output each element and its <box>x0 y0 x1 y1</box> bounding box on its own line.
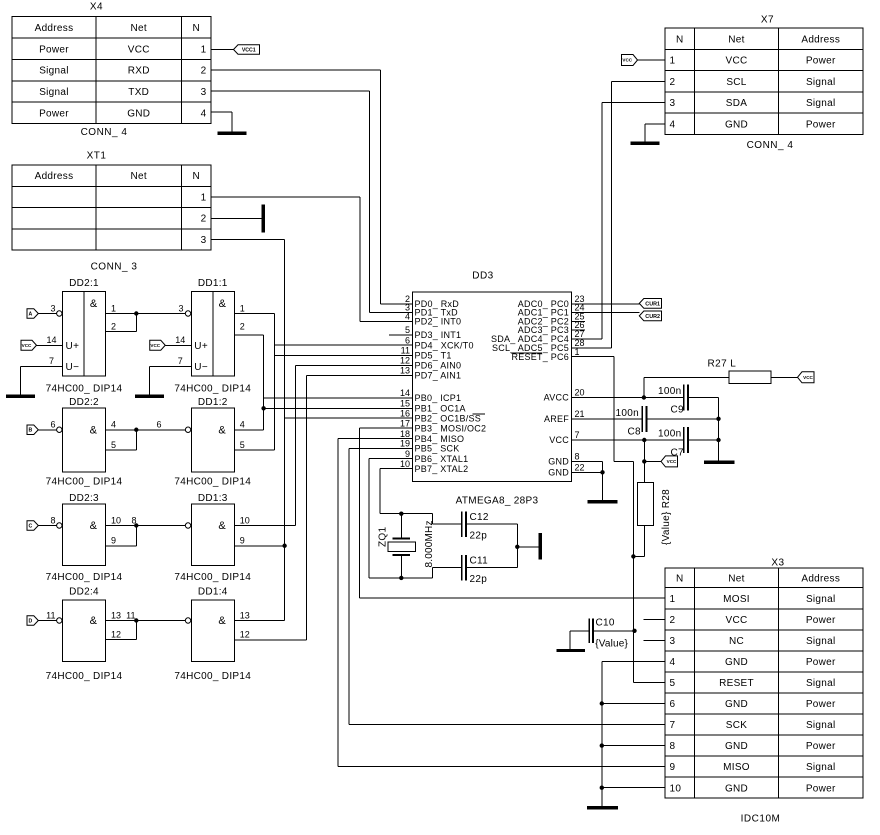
svg-text:Address: Address <box>801 573 840 584</box>
svg-text:6: 6 <box>670 699 676 710</box>
svg-text:CONN_ 3: CONN_ 3 <box>91 262 138 273</box>
svg-text:&: & <box>90 298 98 310</box>
ground symbol at X7 pin4 <box>631 142 660 145</box>
wire XT1 pin3 net (long vertical to gates DD1:3/DD1:4 and DD3 PB2) <box>211 238 285 240</box>
wire X7 pin2 SCL to DD3 pin28 <box>612 80 666 82</box>
svg-text:VCC: VCC <box>622 58 632 63</box>
svg-text:Net: Net <box>131 23 147 34</box>
wire jog bottom rail to C11 row <box>432 568 434 578</box>
wire input B to DD2:2 <box>38 429 56 431</box>
svg-text:3: 3 <box>201 87 207 98</box>
ground symbol at X4 pin 4 <box>218 132 247 135</box>
svg-text:N: N <box>676 34 684 45</box>
svg-text:14: 14 <box>400 388 410 398</box>
svg-text:VCC: VCC <box>22 343 32 348</box>
svg-text:A: A <box>29 311 33 317</box>
svg-text:GND: GND <box>548 457 569 467</box>
svg-text:11: 11 <box>401 346 410 356</box>
NAND gate DD2:3 74HC00 <box>63 504 106 566</box>
junction dot crystal top <box>399 512 403 516</box>
capacitor C7 100n <box>684 427 688 453</box>
svg-text:4: 4 <box>670 119 676 130</box>
svg-text:2: 2 <box>670 77 676 88</box>
power flag VCC at R27 <box>798 372 815 383</box>
svg-text:17: 17 <box>400 418 410 428</box>
wire DD2:2 output pins tied <box>106 429 137 431</box>
svg-text:CONN_ 4: CONN_ 4 <box>747 140 794 151</box>
svg-text:RXD: RXD <box>128 66 150 77</box>
svg-text:Signal: Signal <box>806 636 836 647</box>
svg-text:VCC: VCC <box>725 56 747 67</box>
svg-text:Power: Power <box>806 741 836 752</box>
svg-text:Power: Power <box>806 657 836 668</box>
svg-text:Signal: Signal <box>806 594 836 605</box>
wire DD2:3 output pins tied <box>106 525 137 527</box>
svg-text:GND: GND <box>725 699 748 710</box>
input port flag D <box>27 616 38 626</box>
overline on SS of pin 16 <box>473 413 486 415</box>
svg-text:10: 10 <box>670 783 682 794</box>
wire DD1:4 pin13 to XT1-pin3 net <box>234 620 284 622</box>
svg-text:13: 13 <box>111 610 121 620</box>
svg-text:19: 19 <box>400 439 410 449</box>
svg-text:CONN_ 4: CONN_ 4 <box>81 127 128 138</box>
svg-text:3: 3 <box>178 303 183 313</box>
wire to crystal ground terminal <box>517 546 538 548</box>
svg-text:MISO: MISO <box>723 762 750 773</box>
wire C7 right <box>688 439 719 441</box>
svg-text:SCK: SCK <box>726 720 747 731</box>
svg-text:MOSI: MOSI <box>723 594 750 605</box>
svg-text:12: 12 <box>111 629 121 639</box>
svg-text:8: 8 <box>131 515 136 525</box>
svg-text:&: & <box>218 424 226 436</box>
svg-text:{Value} R28: {Value} R28 <box>661 489 672 545</box>
svg-text:PD3_ INT1: PD3_ INT1 <box>415 330 462 340</box>
capacitor C11 22p <box>462 555 466 581</box>
wire DD1:4 pin12 to DD3 PD7_AIN1 <box>234 639 306 641</box>
svg-text:PB6_ XTAL1: PB6_ XTAL1 <box>415 454 469 464</box>
junction dot PB1 net <box>261 406 265 410</box>
junction dot crystal bottom <box>399 576 403 580</box>
wire input C to DD2:3 <box>38 525 56 527</box>
wire DD3 RESET pin1 to X3 pin5 <box>571 356 614 358</box>
svg-text:PB7_ XTAL2: PB7_ XTAL2 <box>415 464 469 474</box>
svg-text:16: 16 <box>400 408 410 418</box>
wire X4 pin3 TXD net to DD3 PD1_TxD <box>211 90 370 92</box>
capacitor C9 100n <box>684 385 688 411</box>
junction dot C10/RESET <box>632 629 636 633</box>
svg-text:NC: NC <box>729 636 744 647</box>
svg-text:ATMEGA8_ 28P3: ATMEGA8_ 28P3 <box>456 496 539 507</box>
svg-text:&: & <box>218 615 226 627</box>
svg-text:Address: Address <box>801 34 840 45</box>
junction dot AVCC/R27 <box>642 395 646 399</box>
wire X4 pin4 GND <box>211 111 232 113</box>
svg-text:DD2:1: DD2:1 <box>69 278 99 289</box>
wire R28 bottom to RESET net <box>643 525 645 556</box>
svg-text:Signal: Signal <box>39 66 69 77</box>
svg-text:2: 2 <box>111 321 116 331</box>
wire DD3 pin23 to CUR1 <box>571 303 639 305</box>
ground terminal bar (vertical) <box>538 533 542 560</box>
junction dot DD2:2 output <box>134 428 138 432</box>
capacitor C12 22p <box>462 511 466 537</box>
svg-text:Power: Power <box>806 699 836 710</box>
X3 pin3 stub NC <box>644 639 665 641</box>
wire X7 pin3 SDA to DD3 pin27 <box>602 102 665 104</box>
svg-text:100n: 100n <box>658 386 681 397</box>
svg-text:74HC00_ DIP14: 74HC00_ DIP14 <box>174 671 251 682</box>
junction dot AREF rail <box>716 417 720 421</box>
svg-text:7: 7 <box>49 356 54 366</box>
wire DD3 AREF pin21 row <box>571 418 642 420</box>
svg-text:6: 6 <box>50 420 55 430</box>
svg-text:7: 7 <box>670 720 676 731</box>
svg-text:1: 1 <box>670 56 676 67</box>
DD3 pin 5 stub (unconnected) <box>389 334 413 336</box>
svg-text:7: 7 <box>178 356 183 366</box>
svg-text:5: 5 <box>670 678 676 689</box>
junction dot R28/RESET <box>631 554 635 558</box>
wire VCC flag junction down to R28 <box>643 461 645 482</box>
wire DD3 PB6_XTAL1 pin9 to crystal bottom rail <box>369 458 412 460</box>
svg-text:GND: GND <box>127 109 150 120</box>
wire DD3 PB7_XTAL2 pin10 to crystal top rail <box>380 468 413 470</box>
X3 pin2 stub VCC <box>644 618 665 620</box>
junction dot VCC rail <box>716 438 720 442</box>
svg-text:C12: C12 <box>470 512 489 523</box>
wire DD1:1 pin1 to DD3 PD4_XCK/T0 and DD1:2 pin5 to PD5_T1 (shared column) <box>234 313 274 315</box>
wire C11 right <box>466 567 517 569</box>
svg-text:N: N <box>676 573 684 584</box>
svg-text:4: 4 <box>240 420 245 430</box>
svg-text:Net: Net <box>728 573 744 584</box>
svg-text:DD1:1: DD1:1 <box>198 278 228 289</box>
svg-text:3: 3 <box>670 98 676 109</box>
svg-text:R27 L: R27 L <box>708 359 737 370</box>
svg-text:2: 2 <box>201 214 207 225</box>
svg-text:Signal: Signal <box>806 762 836 773</box>
ground symbol at C10 <box>556 649 585 652</box>
svg-text:RESET: RESET <box>719 678 754 689</box>
wire R27 left to AVCC junction <box>644 376 729 378</box>
svg-text:DD2:2: DD2:2 <box>69 397 99 408</box>
wire DD2:4 to DD1:4 input <box>136 620 185 622</box>
svg-text:Power: Power <box>39 109 69 120</box>
wire DD3 AVCC pin20 row <box>571 397 683 399</box>
svg-text:&: & <box>90 424 98 436</box>
svg-text:5: 5 <box>240 440 245 450</box>
svg-text:11: 11 <box>126 610 135 620</box>
NAND gate DD1:3 74HC00 <box>191 504 234 566</box>
input port flag C <box>27 521 38 531</box>
svg-text:D: D <box>29 618 33 624</box>
svg-text:PB4_ MISO: PB4_ MISO <box>415 434 465 444</box>
svg-text:C11: C11 <box>470 555 489 566</box>
wire GND down <box>602 472 604 500</box>
wire VCC to DD1:1 U+ pin 14 <box>165 344 191 346</box>
junction dot DD2:3 output <box>134 523 138 527</box>
DD3 pins 25,26 stubs (unconnected) <box>571 320 585 322</box>
svg-text:Signal: Signal <box>806 678 836 689</box>
svg-text:Signal: Signal <box>39 87 69 98</box>
svg-text:Power: Power <box>806 56 836 67</box>
NAND gate DD2:1 74HC00 <box>63 292 106 377</box>
wire X7 pin1 VCC <box>638 59 666 61</box>
svg-text:7: 7 <box>575 430 580 440</box>
overline on RESET of pin 1 <box>511 352 542 354</box>
junction dot VCC pin7 column <box>642 438 646 442</box>
NAND gate DD1:2 74HC00 <box>191 408 234 472</box>
wire C9 right to ground rail <box>688 397 719 399</box>
input port flag B <box>27 425 38 435</box>
svg-text:74HC00_ DIP14: 74HC00_ DIP14 <box>46 572 123 583</box>
svg-text:Power: Power <box>806 615 836 626</box>
svg-text:74HC00_ DIP14: 74HC00_ DIP14 <box>46 477 123 488</box>
svg-text:B: B <box>29 428 33 434</box>
NAND gate DD2:4 74HC00 <box>63 600 106 662</box>
svg-text:Power: Power <box>806 119 836 130</box>
wire VCC column down to flag junction <box>643 440 645 461</box>
svg-text:12: 12 <box>240 629 250 639</box>
svg-text:Address: Address <box>35 23 74 34</box>
svg-text:SCL: SCL <box>726 77 746 88</box>
svg-text:&: & <box>219 298 227 310</box>
svg-text:1: 1 <box>240 303 245 313</box>
wire DD2:4 output pins tied <box>106 620 137 622</box>
ground symbol decoupling rail <box>704 461 735 464</box>
connector X4 pin 1 wire to VCC1 flag <box>211 49 234 51</box>
svg-text:X4: X4 <box>90 2 103 13</box>
svg-text:Address: Address <box>35 171 74 182</box>
svg-text:CUR2: CUR2 <box>645 314 660 320</box>
wire X3 pin10 GND <box>602 787 665 789</box>
svg-text:XT1: XT1 <box>87 151 107 162</box>
svg-text:6: 6 <box>405 335 410 345</box>
wire DD3 VCC pin7 row <box>571 439 683 441</box>
ground symbol at DD1:1 pin 7 <box>135 395 164 398</box>
svg-text:8.000MHz: 8.000MHz <box>424 520 435 567</box>
svg-text:18: 18 <box>400 429 410 439</box>
svg-text:&: & <box>90 520 98 532</box>
svg-text:CUR1: CUR1 <box>645 301 660 307</box>
svg-text:100n: 100n <box>616 408 639 419</box>
svg-text:2: 2 <box>240 321 245 331</box>
wire DD3 pin24 to CUR2 <box>571 312 639 314</box>
svg-text:14: 14 <box>46 335 56 345</box>
svg-text:4: 4 <box>201 109 207 120</box>
svg-text:PB0_ ICP1: PB0_ ICP1 <box>415 393 462 403</box>
svg-text:12: 12 <box>400 356 410 366</box>
svg-text:4: 4 <box>670 657 676 668</box>
svg-text:9: 9 <box>670 762 676 773</box>
svg-text:5: 5 <box>405 325 410 335</box>
svg-text:PD5_ T1: PD5_ T1 <box>415 351 452 361</box>
svg-text:DD2:4: DD2:4 <box>69 586 99 597</box>
svg-text:X7: X7 <box>761 15 774 26</box>
NAND gate DD2:2 74HC00 <box>63 408 106 472</box>
connector XT1 table <box>12 165 211 250</box>
svg-text:4: 4 <box>111 420 116 430</box>
svg-text:GND: GND <box>725 119 748 130</box>
svg-text:N: N <box>192 23 200 34</box>
wire C12 right <box>466 523 517 525</box>
wire jog top rail to C12 row <box>432 514 434 524</box>
svg-text:100n: 100n <box>658 429 681 440</box>
power flag VCC1 <box>234 45 260 55</box>
svg-text:8: 8 <box>575 452 580 462</box>
svg-text:5: 5 <box>111 440 116 450</box>
connector X7 table <box>665 28 863 135</box>
svg-text:DD3: DD3 <box>472 271 494 282</box>
wire X3 pin4 GND net <box>602 660 665 662</box>
junction dot DD2:1 output <box>134 311 138 315</box>
svg-text:15: 15 <box>400 399 410 409</box>
wire DD2:1 to DD1:1 input <box>136 313 185 315</box>
svg-text:U+: U+ <box>194 341 208 352</box>
svg-text:GND: GND <box>725 783 748 794</box>
svg-text:13: 13 <box>400 366 410 376</box>
svg-text:1: 1 <box>670 594 676 605</box>
svg-text:Signal: Signal <box>806 77 836 88</box>
wire DD2:1 U- pin 7 to ground <box>21 366 63 368</box>
svg-text:74HC00_ DIP14: 74HC00_ DIP14 <box>174 384 251 395</box>
svg-text:X3: X3 <box>771 558 784 569</box>
wire C10 right to RESET net <box>593 630 635 632</box>
svg-text:Signal: Signal <box>806 720 836 731</box>
svg-text:22p: 22p <box>470 531 488 542</box>
svg-text:3: 3 <box>670 636 676 647</box>
svg-text:22: 22 <box>575 463 585 473</box>
wire to VCC flag <box>644 460 661 462</box>
junction dot caps right <box>515 545 519 549</box>
svg-text:U+: U+ <box>66 341 80 352</box>
svg-text:VCC1: VCC1 <box>242 47 256 53</box>
svg-text:1: 1 <box>201 192 207 203</box>
svg-text:74HC00_ DIP14: 74HC00_ DIP14 <box>46 384 123 395</box>
power flag VCC near C7 <box>661 456 678 467</box>
svg-text:Signal: Signal <box>806 98 836 109</box>
svg-text:8: 8 <box>670 741 676 752</box>
port flag CUR1 <box>639 299 661 309</box>
wire branch PB2_OC1B/SS pin16 <box>285 417 413 419</box>
svg-text:9: 9 <box>111 536 116 546</box>
power flag VCC at DD2:1 pin 14 <box>21 340 37 350</box>
svg-text:Power: Power <box>806 783 836 794</box>
svg-text:N: N <box>192 171 200 182</box>
wire R27 right to VCC flag <box>771 376 798 378</box>
connector X3 table <box>665 568 863 798</box>
svg-text:74HC00_ DIP14: 74HC00_ DIP14 <box>46 671 123 682</box>
svg-text:VCC: VCC <box>128 44 150 55</box>
wire X3 pin6 GND <box>602 703 665 705</box>
ground symbol at DD3 GND <box>588 500 618 503</box>
svg-text:14: 14 <box>175 335 185 345</box>
svg-text:Net: Net <box>131 171 147 182</box>
power flag VCC at X7 pin1 <box>622 55 638 66</box>
svg-text:VCC: VCC <box>725 615 747 626</box>
power flag VCC at DD1:1 pin 14 <box>150 340 166 350</box>
svg-text:&: & <box>218 520 226 532</box>
svg-text:AVCC: AVCC <box>544 393 570 403</box>
svg-text:PB2_ OC1B/SS: PB2_ OC1B/SS <box>415 413 482 423</box>
svg-text:3: 3 <box>50 303 55 313</box>
svg-text:74HC00_ DIP14: 74HC00_ DIP14 <box>174 572 251 583</box>
svg-text:IDC10M: IDC10M <box>741 814 781 825</box>
resistor R27 body <box>729 371 771 384</box>
wire XT1 pin2 to bar terminal <box>211 217 262 219</box>
wire DD1:3 pin9 to XT1-pin3 net <box>234 545 284 547</box>
wire DD2:2 to DD1:2 input <box>136 429 185 431</box>
svg-text:10: 10 <box>400 459 410 469</box>
wire C8 right <box>647 418 719 420</box>
svg-text:ZQ1: ZQ1 <box>378 527 389 547</box>
svg-text:2: 2 <box>670 615 676 626</box>
input port flag A <box>27 309 38 319</box>
svg-text:22p: 22p <box>470 574 488 585</box>
wire DD2:1 output pins tied <box>106 313 137 315</box>
wire DD3 PB5 SCK to X3 pin7 <box>349 448 413 450</box>
svg-text:GND: GND <box>725 657 748 668</box>
svg-text:1: 1 <box>201 44 207 55</box>
svg-text:10: 10 <box>240 515 250 525</box>
svg-text:TXD: TXD <box>128 87 149 98</box>
wire X3 pin8 GND <box>602 745 665 747</box>
ground symbol at X3 <box>587 806 618 809</box>
svg-text:C: C <box>29 523 33 529</box>
svg-text:VCC: VCC <box>549 435 569 445</box>
wire X4 pin2 RXD net to DD3 PD0_RxD <box>211 69 381 71</box>
wire VCC to DD2:1 U+ pin 14 <box>37 344 63 346</box>
terminal bar at XT1 pin 2 <box>262 205 266 233</box>
resistor R28 body <box>637 483 653 526</box>
port flag CUR2 <box>639 311 661 321</box>
svg-text:Net: Net <box>728 34 744 45</box>
capacitor C10 <box>589 619 593 644</box>
svg-text:VCC: VCC <box>803 375 813 380</box>
wire C10 left to ground <box>570 630 589 632</box>
junction dot GND pins <box>600 470 604 474</box>
wire DD1:3 pin10 to DD3 PD6_AIN0 <box>234 525 295 527</box>
svg-text:DD1:2: DD1:2 <box>198 397 228 408</box>
svg-text:SDA: SDA <box>726 98 747 109</box>
wire input A to DD2:1 <box>38 313 56 315</box>
capacitor C8 100n <box>642 406 646 432</box>
svg-text:9: 9 <box>240 536 245 546</box>
svg-text:4: 4 <box>405 312 410 322</box>
svg-text:U−: U− <box>194 362 208 373</box>
svg-text:Power: Power <box>39 44 69 55</box>
junction dot VCC flag <box>642 459 646 463</box>
connector X4 table <box>12 17 211 124</box>
svg-text:10: 10 <box>111 515 121 525</box>
svg-text:U−: U− <box>66 362 80 373</box>
svg-text:PD7_ AIN1: PD7_ AIN1 <box>415 371 462 381</box>
svg-text:20: 20 <box>575 388 585 398</box>
wire DD2:3 to DD1:3 input <box>136 525 185 527</box>
wire input D to DD2:4 <box>38 620 56 622</box>
svg-text:1: 1 <box>111 303 116 313</box>
wire DD1:1 U- pin 7 to ground <box>149 366 191 368</box>
NAND gate DD1:4 74HC00 <box>191 600 234 662</box>
svg-text:C10: C10 <box>596 618 615 629</box>
svg-text:PD4_ XCK/T0: PD4_ XCK/T0 <box>415 340 474 350</box>
svg-text:21: 21 <box>575 409 585 419</box>
svg-text:8: 8 <box>50 515 55 525</box>
svg-text:13: 13 <box>240 610 250 620</box>
svg-text:PB3_ MOSI/OC2: PB3_ MOSI/OC2 <box>415 423 487 433</box>
